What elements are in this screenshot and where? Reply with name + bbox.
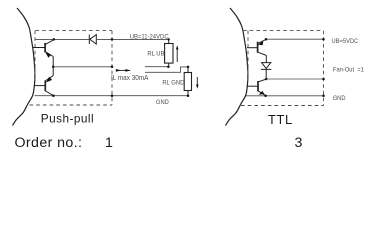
- wire: UB top rail left segment: [35, 38, 89, 40]
- diode D1 (reverse protection, cathode left): [89, 35, 96, 44]
- svg-text:RL UB: RL UB: [147, 50, 164, 57]
- node: UB rail at dashed boundary: [322, 38, 325, 41]
- svg-text:TTL: TTL: [268, 112, 293, 127]
- arrow: Q3 emitter (points toward base): [258, 41, 263, 46]
- node: GND rail at dashed boundary: [322, 95, 325, 98]
- transistor Q3 (upper): [247, 39, 266, 55]
- svg-text:GND: GND: [156, 99, 169, 106]
- node: output junction: [52, 66, 55, 69]
- node: Q2 collector on GND rail: [52, 94, 55, 97]
- node: Q4 emitter on GND rail: [264, 95, 267, 98]
- transistor Q4 (lower): [247, 79, 267, 96]
- node: collector junction on UB rail: [53, 38, 56, 41]
- resistor RL GND: [187, 67, 189, 73]
- wire: output rail to boundary: [53, 66, 112, 68]
- dashed enclosure (TTL): [241, 31, 324, 106]
- arrow: current up beside RL UB: [176, 49, 178, 63]
- node: UB rail corner above RL UB: [168, 38, 170, 40]
- svg-text:GND: GND: [333, 95, 346, 102]
- wire: Q3 collector down to diode: [265, 55, 267, 62]
- wire: output branch to RL UB: [145, 66, 168, 68]
- svg-text:Push-pull: Push-pull: [41, 112, 94, 126]
- arrow: Q1 emitter (points toward base): [45, 53, 51, 58]
- wire: Fan-Out middle rail: [266, 78, 324, 80]
- node: Fan-Out junction: [265, 78, 268, 81]
- svg-text:3: 3: [295, 135, 303, 151]
- node: RL GND bottom on GND rail: [187, 94, 190, 97]
- resistor RL UB: [168, 39, 170, 43]
- svg-text:IL max 30mA: IL max 30mA: [111, 75, 149, 82]
- arrow: IL current direction symbol: [116, 69, 130, 71]
- arrow: Q4 emitter (points toward base): [259, 91, 265, 95]
- wire: GND rail: [35, 95, 188, 97]
- svg-text:1: 1: [105, 135, 113, 151]
- wire: UB top rail right segment: [96, 38, 168, 40]
- wire: diode to middle-rail node: [265, 69, 267, 79]
- dashed enclosure (Push-pull): [30, 31, 113, 105]
- wire: output lower branch to RL GND: [145, 67, 188, 72]
- wire: output vertical between Q1 and Q2: [52, 57, 54, 76]
- sensor housing arc (Push-pull): [13, 8, 35, 126]
- wire: UB rail (TTL): [266, 38, 324, 40]
- arrow: Q2 emitter (points toward base): [46, 77, 52, 83]
- sensor housing arc (TTL): [226, 8, 248, 126]
- svg-text:UB=11-24VDC: UB=11-24VDC: [130, 33, 169, 40]
- node: RL GND top junction: [187, 66, 190, 69]
- node: RL UB bottom junction: [167, 65, 170, 68]
- svg-text:RL GND: RL GND: [162, 79, 184, 86]
- arrow: current down beside RL GND: [196, 77, 198, 85]
- node: UB rail crossing dashed boundary: [111, 38, 114, 41]
- diode D2 (pointing down): [261, 63, 271, 70]
- node: output rail at dashed boundary: [111, 66, 114, 69]
- node: GND rail crossing dashed boundary: [111, 94, 114, 97]
- transistor Q1 (upper, PNP-style arrow): [33, 40, 54, 57]
- svg-text:UB=5VDC: UB=5VDC: [332, 38, 359, 45]
- svg-text:Order no.:: Order no.:: [15, 135, 83, 151]
- transistor Q2 (lower, PNP-style arrow): [35, 76, 54, 96]
- node: Q3 emitter on UB rail: [265, 38, 268, 41]
- svg-text:Fan-Out =1: Fan-Out =1: [333, 66, 364, 73]
- wire: GND rail (TTL): [246, 95, 324, 97]
- node: middle rail at dashed boundary: [322, 78, 325, 81]
